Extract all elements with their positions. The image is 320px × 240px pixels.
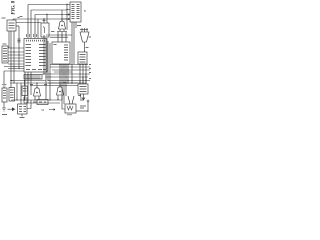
tiny label marks left of U5 top [18,39,21,42]
tiny right edge labels [89,65,91,79]
IC U7 (box right-mid) [78,52,87,64]
bus label strip under U5 [24,75,42,80]
wire [28,5,67,39]
left lower wires into U5 [4,64,24,69]
ground left [2,71,7,88]
block 83 bottom-left tall [2,88,7,102]
IC U10 (box right-bottom) [78,84,88,94]
bottom bus wires [11,100,62,103]
transistor Q3 (bell bottom-mid) [57,87,64,95]
verticals mid [44,35,50,100]
transistor Q1 (bell) [59,21,66,29]
wires under U8 [72,22,76,64]
junction dots on bus [61,4,67,20]
wire [35,15,67,39]
wire [16,22,41,24]
wire vertical x67 to DAC area [66,5,68,31]
nested wire corners bottom-centre [37,100,48,105]
Q1 legs [57,29,67,32]
label 261 [77,25,81,27]
IC U5 (big box centre-left) [24,39,47,73]
left wires B2 to U5 [8,48,24,61]
vertical feeders from block 12 [9,26,19,88]
pin labels above U5 [27,34,37,37]
wire bus top [13,19,67,20]
transistor Q2 (bell bottom-left) [34,88,41,96]
wire [37,19,39,38]
IC U8 (tall box top-right) [70,2,81,22]
block 84 [9,88,15,102]
wires Q1 to U9 [58,32,66,43]
junction dots lower band [11,64,86,86]
wires into motor block [62,100,65,109]
box 26 (small box above U5) [41,23,49,37]
block 85 small [22,86,28,96]
wire branches into box 26 [44,15,47,24]
IC U6 (box centre) [52,42,70,64]
right bottom vertical [87,101,89,112]
DAC T2 (trapezoid right) [80,32,89,42]
wire [31,10,67,38]
horizontal wire y35 [46,35,72,37]
block 82 (left tall small box) [2,46,8,63]
crystal block bottom-left [18,104,28,114]
wires around bottom-left blocks [17,81,25,105]
arrow [12,107,15,111]
small marks bottom far-left [2,108,6,111]
long horizontal wires lower band [4,70,24,72]
svg-text:31: 31 [41,108,45,112]
wire stubs into U8 [62,5,70,20]
block 12 (top-left small box) [7,20,16,31]
svg-text:FIG. 8: FIG. 8 [12,0,17,14]
motor block bottom-right [65,104,76,113]
